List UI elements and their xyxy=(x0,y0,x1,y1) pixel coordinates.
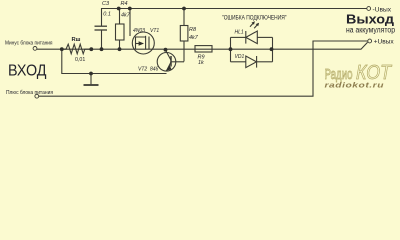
terminal minus input xyxy=(33,47,37,51)
node main-LED-right xyxy=(270,47,274,51)
node main-R4 xyxy=(118,47,122,51)
svg-text:0,01: 0,01 xyxy=(75,57,85,63)
node bottom-chassis xyxy=(89,72,93,76)
node rail-R4 xyxy=(117,7,121,11)
diode VD1 triangle xyxy=(246,56,257,68)
svg-text:4N03: 4N03 xyxy=(133,28,145,34)
wire LED branch left riser xyxy=(230,37,232,61)
terminal plus input xyxy=(35,94,39,98)
resistor Rsh zigzag xyxy=(62,44,92,54)
svg-text:Минус блока питания: Минус блока питания xyxy=(5,41,53,47)
chassis bar xyxy=(84,84,99,86)
wire VT1 drain lead xyxy=(129,9,131,37)
svg-text:ВХОД: ВХОД xyxy=(8,62,47,79)
LED arrow head 2 xyxy=(256,23,259,27)
node rail-VT1 xyxy=(128,7,132,11)
svg-text:на аккумулятор: на аккумулятор xyxy=(346,25,396,34)
svg-text:radiokot.ru: radiokot.ru xyxy=(325,80,385,89)
diode VD1 cathode bar xyxy=(256,56,258,68)
svg-text:R8: R8 xyxy=(189,27,197,33)
transistor VT1 internal electrodes xyxy=(136,37,146,49)
node main-VT2 xyxy=(164,48,168,52)
capacitor C3 plates xyxy=(95,26,108,30)
node rail-R8 xyxy=(182,7,186,11)
wire top rail xyxy=(102,9,367,27)
svg-text:R4: R4 xyxy=(121,1,128,7)
wire VT2 base to R8 xyxy=(171,61,184,63)
svg-text:Плюс блока питания: Плюс блока питания xyxy=(6,90,53,96)
svg-text:1k: 1k xyxy=(198,60,204,66)
transistor VT1 body xyxy=(132,32,154,54)
svg-text:4k7: 4k7 xyxy=(189,35,199,41)
transistor VT2 body xyxy=(157,53,176,72)
wire C3 lower lead xyxy=(101,30,103,49)
VT1 source arrow xyxy=(139,41,144,46)
wire plus rail xyxy=(39,41,368,96)
LED HL1 cathode bar xyxy=(245,31,247,44)
svg-text:4k7: 4k7 xyxy=(121,13,131,19)
terminal plus output xyxy=(368,39,372,43)
svg-text:+Uвых: +Uвых xyxy=(374,39,394,45)
svg-text:VT2: VT2 xyxy=(138,66,147,72)
svg-text:Rш: Rш xyxy=(72,37,81,43)
resistor R4 xyxy=(119,9,121,25)
resistor R8 xyxy=(183,9,185,26)
svg-text:HL1: HL1 xyxy=(235,29,244,35)
junction dots xyxy=(60,7,274,76)
svg-text:846: 846 xyxy=(150,66,159,72)
diode VD1 bottom row wires xyxy=(231,61,246,63)
LED arrow head 1 xyxy=(252,21,255,25)
node main-Rsh-right xyxy=(89,47,93,51)
LED emission arrow 2 xyxy=(254,24,258,29)
wire chassis stub xyxy=(90,74,92,85)
LED HL1 top row wires xyxy=(231,36,246,38)
svg-text:VT1: VT1 xyxy=(150,28,159,34)
terminal minus output xyxy=(367,7,371,11)
svg-text:0.1: 0.1 xyxy=(103,12,111,18)
wire LED branch right riser xyxy=(272,37,274,61)
LED HL1 triangle xyxy=(246,31,257,44)
wire shunt lower loop xyxy=(62,49,167,73)
node main-C3 xyxy=(100,47,104,51)
svg-text:C3: C3 xyxy=(102,1,110,7)
node main-LED-left xyxy=(229,47,233,51)
VT2 emitter arrow xyxy=(166,65,172,71)
transistor VT2 electrodes xyxy=(166,50,172,60)
svg-text:"ОШИБКА ПОДКЛЮЧЕНИЯ": "ОШИБКА ПОДКЛЮЧЕНИЯ" xyxy=(222,15,287,21)
wire main horizontal node xyxy=(37,42,368,49)
LED emission arrow 1 xyxy=(250,22,254,27)
node main-Rsh-left xyxy=(60,47,64,51)
resistor R9 xyxy=(195,46,212,52)
svg-text:VD1: VD1 xyxy=(235,54,245,60)
